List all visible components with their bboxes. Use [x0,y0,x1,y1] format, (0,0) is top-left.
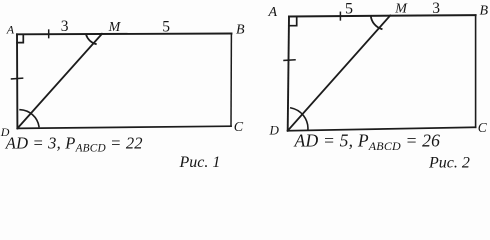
svg-text:5: 5 [345,1,353,18]
fig1 right-angle mark at A [17,34,23,42]
svg-text:D: D [269,122,280,137]
fig1 tick on AM [48,30,50,37]
fig1 side BC [230,34,232,127]
svg-text:3: 3 [61,18,69,35]
svg-text:3: 3 [432,0,440,17]
svg-text:B: B [480,3,489,18]
fig2 side AB [289,15,476,16]
fig2 angle arc at D [291,108,308,130]
fig2 tick on AD [284,59,295,62]
svg-text:C: C [478,120,488,135]
fig2 angle arc at M [371,16,382,29]
fig2 tick on AM [339,12,341,20]
svg-text:Рис. 2: Рис. 2 [428,155,470,172]
fig2 right-angle mark at A [289,17,297,26]
svg-text:A: A [268,5,278,20]
svg-text:Рис. 1: Рис. 1 [179,154,221,171]
svg-text:AD = 5, PABCD = 26: AD = 5, PABCD = 26 [294,131,441,153]
fig1 side AB [17,33,232,36]
fig1 angle arc at D [20,110,39,127]
fig1 side DC [17,126,231,128]
svg-text:M: M [394,2,408,17]
svg-text:M: M [108,20,122,35]
fig2 diagonal DM [288,16,391,131]
svg-text:5: 5 [162,19,170,36]
svg-text:A: A [6,23,15,37]
fig1 diagonal DM [17,34,102,129]
fig2 side DC [288,127,476,130]
fig2 side BC [475,15,477,127]
fig1 angle arc at M [86,34,96,44]
svg-text:AD = 3, PABCD = 22: AD = 3, PABCD = 22 [5,134,143,155]
fig2 side AD [288,17,289,131]
fig1 side AD [16,34,18,128]
svg-text:B: B [236,22,245,37]
fig1 tick on AD [12,77,23,80]
svg-text:C: C [234,120,244,135]
